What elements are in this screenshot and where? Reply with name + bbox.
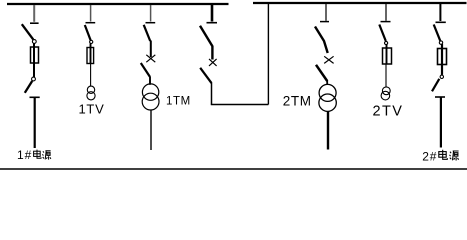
wire: bus II drop to QS5 — [325, 4, 327, 21]
disconnector QS5 blade — [315, 27, 328, 54]
svg-text:1TV: 1TV — [79, 102, 105, 117]
wire: QS6 hinge through fuse FU3 — [386, 45, 388, 65]
disconnector QS1a blade — [22, 24, 33, 39]
busbar I (left bus) — [7, 3, 229, 5]
label glyph dian (source 2) — [439, 150, 448, 160]
fuse FU2 body — [87, 48, 94, 64]
wire: 2TM outgoing feeder — [327, 111, 329, 150]
svg-text:2TM: 2TM — [283, 93, 312, 108]
wire: 1TM outgoing feeder — [150, 110, 152, 150]
wire: switch to transformer 2TM — [326, 80, 328, 85]
disconnector QS4 fixed contact — [207, 22, 218, 24]
wire: bus I drop to QS3 — [150, 5, 152, 22]
breaker contact X (bus tie) — [209, 59, 217, 66]
voltage transformer 2TV winding 2 — [381, 91, 390, 100]
switch blade (bus tie) — [200, 68, 211, 83]
disconnector QS1b fixed contact — [30, 96, 40, 98]
wire: QS7a hinge through fuse FU4 — [441, 44, 443, 75]
wire: QS4 to tie breaker contact — [211, 46, 213, 60]
svg-text:2#: 2# — [422, 150, 437, 164]
wire: bus I drop to QS1a — [33, 5, 35, 22]
disconnector QS2 blade — [85, 25, 91, 40]
disconnector QS6 fixed contact — [381, 21, 391, 23]
transformer 2TM winding 2 — [319, 94, 336, 111]
svg-text:1#: 1# — [17, 148, 32, 162]
wire: QS3 to breaker contact (1TM feeder) — [150, 41, 152, 58]
wire: bus tie riser to bus II — [267, 4, 269, 105]
switch blade (2TM feeder) — [316, 65, 327, 81]
fuse FU4 body — [438, 49, 447, 65]
disconnector QS1a hinge — [32, 40, 36, 44]
label glyph dian (source 1) — [34, 150, 41, 159]
disconnector QS3 blade — [144, 25, 151, 41]
wire: bus I drop to QS4 (bus tie) — [211, 5, 214, 22]
disconnector QS4 blade — [200, 26, 212, 46]
disconnector QS1b hinge — [32, 77, 36, 81]
wire: switch to transformer 1TM — [149, 76, 151, 85]
switch blade (1TM feeder) — [141, 63, 150, 77]
wire: bus tie horizontal run — [211, 104, 269, 106]
voltage transformer 2TV winding 1 — [382, 87, 390, 95]
svg-text:2TV: 2TV — [373, 104, 404, 120]
disconnector QS7b fixed contact — [435, 96, 445, 98]
wire: FU2 to 1TV — [90, 64, 92, 87]
svg-text:1TM: 1TM — [166, 96, 191, 108]
breaker contact X (1TM feeder) — [146, 55, 155, 62]
disconnector QS2 fixed contact — [86, 22, 96, 24]
disconnector QS3 fixed contact — [146, 22, 156, 24]
transformer 2TM winding 1 — [319, 84, 336, 101]
disconnector QS5 fixed contact — [320, 21, 329, 23]
fuse FU1 body — [31, 47, 39, 63]
transformer 1TM winding 2 — [142, 93, 159, 110]
disconnector QS1b blade — [25, 81, 32, 93]
disconnector QS6 blade — [379, 25, 386, 42]
disconnector QS7a hinge — [439, 41, 442, 44]
wire: bus tie vertical down — [211, 83, 213, 105]
disconnector QS7a blade — [434, 25, 441, 41]
wire: FU3 to 2TV — [385, 64, 387, 87]
wire: QS2 hinge through fuse FU2 — [90, 43, 92, 63]
wire: bus II drop to QS6 — [385, 4, 387, 21]
wire: QS1b to source 1 terminal — [34, 97, 36, 148]
disconnector QS7b blade — [432, 79, 439, 92]
wire: QS7b to source 2 terminal — [440, 97, 442, 148]
voltage transformer 1TV winding 1 — [87, 86, 94, 93]
wire: bus II drop to QS7a — [439, 4, 441, 21]
label glyph yuan (source 1) — [42, 151, 51, 160]
border line (bottom frame) — [0, 168, 467, 170]
fuse FU3 body — [383, 48, 392, 64]
disconnector QS7a fixed contact — [436, 21, 446, 23]
disconnector QS1a fixed contact — [30, 22, 39, 24]
disconnector QS6 hinge — [385, 41, 388, 44]
voltage transformer 1TV winding 2 — [87, 92, 95, 100]
disconnector QS7b hinge — [440, 75, 443, 78]
transformer 1TM winding 1 — [142, 84, 158, 100]
label glyph yuan (source 2) — [450, 151, 459, 161]
wire: QS1a hinge through fuse FU1 — [33, 43, 35, 77]
disconnector QS2 hinge — [90, 40, 93, 43]
wire: bus I drop to QS2 — [90, 5, 92, 22]
busbar II (right bus) — [253, 2, 467, 4]
breaker contact X (2TM feeder) — [324, 56, 333, 63]
